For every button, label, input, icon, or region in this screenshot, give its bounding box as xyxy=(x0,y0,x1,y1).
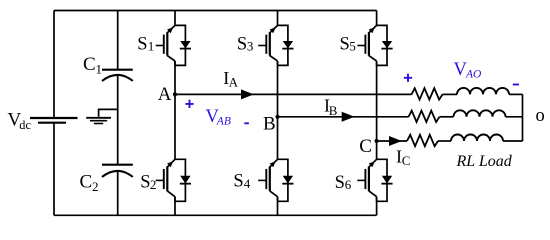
svg-text:RL Load: RL Load xyxy=(456,153,513,170)
svg-text:2: 2 xyxy=(150,177,157,192)
svg-text:1: 1 xyxy=(148,39,155,54)
svg-text:1: 1 xyxy=(96,62,103,77)
svg-text:A: A xyxy=(158,84,172,105)
svg-text:S: S xyxy=(335,173,345,193)
svg-text:S: S xyxy=(137,34,147,54)
svg-text:S: S xyxy=(237,34,247,54)
svg-text:B: B xyxy=(329,103,338,118)
svg-text:6: 6 xyxy=(345,177,352,192)
svg-text:A: A xyxy=(229,74,239,89)
svg-text:C: C xyxy=(402,153,411,168)
svg-text:2: 2 xyxy=(92,179,99,194)
svg-text:C: C xyxy=(80,171,93,192)
svg-text:4: 4 xyxy=(244,176,251,191)
svg-text:C: C xyxy=(83,54,96,75)
svg-text:5: 5 xyxy=(349,39,356,54)
svg-text:AB: AB xyxy=(216,116,231,128)
svg-text:AO: AO xyxy=(465,68,482,80)
svg-text:3: 3 xyxy=(247,39,254,54)
svg-text:dc: dc xyxy=(19,118,31,132)
svg-text:S: S xyxy=(340,34,350,54)
svg-text:B: B xyxy=(263,113,276,134)
svg-text:S: S xyxy=(233,172,243,192)
svg-text:o: o xyxy=(536,106,545,126)
svg-text:C: C xyxy=(359,136,372,157)
